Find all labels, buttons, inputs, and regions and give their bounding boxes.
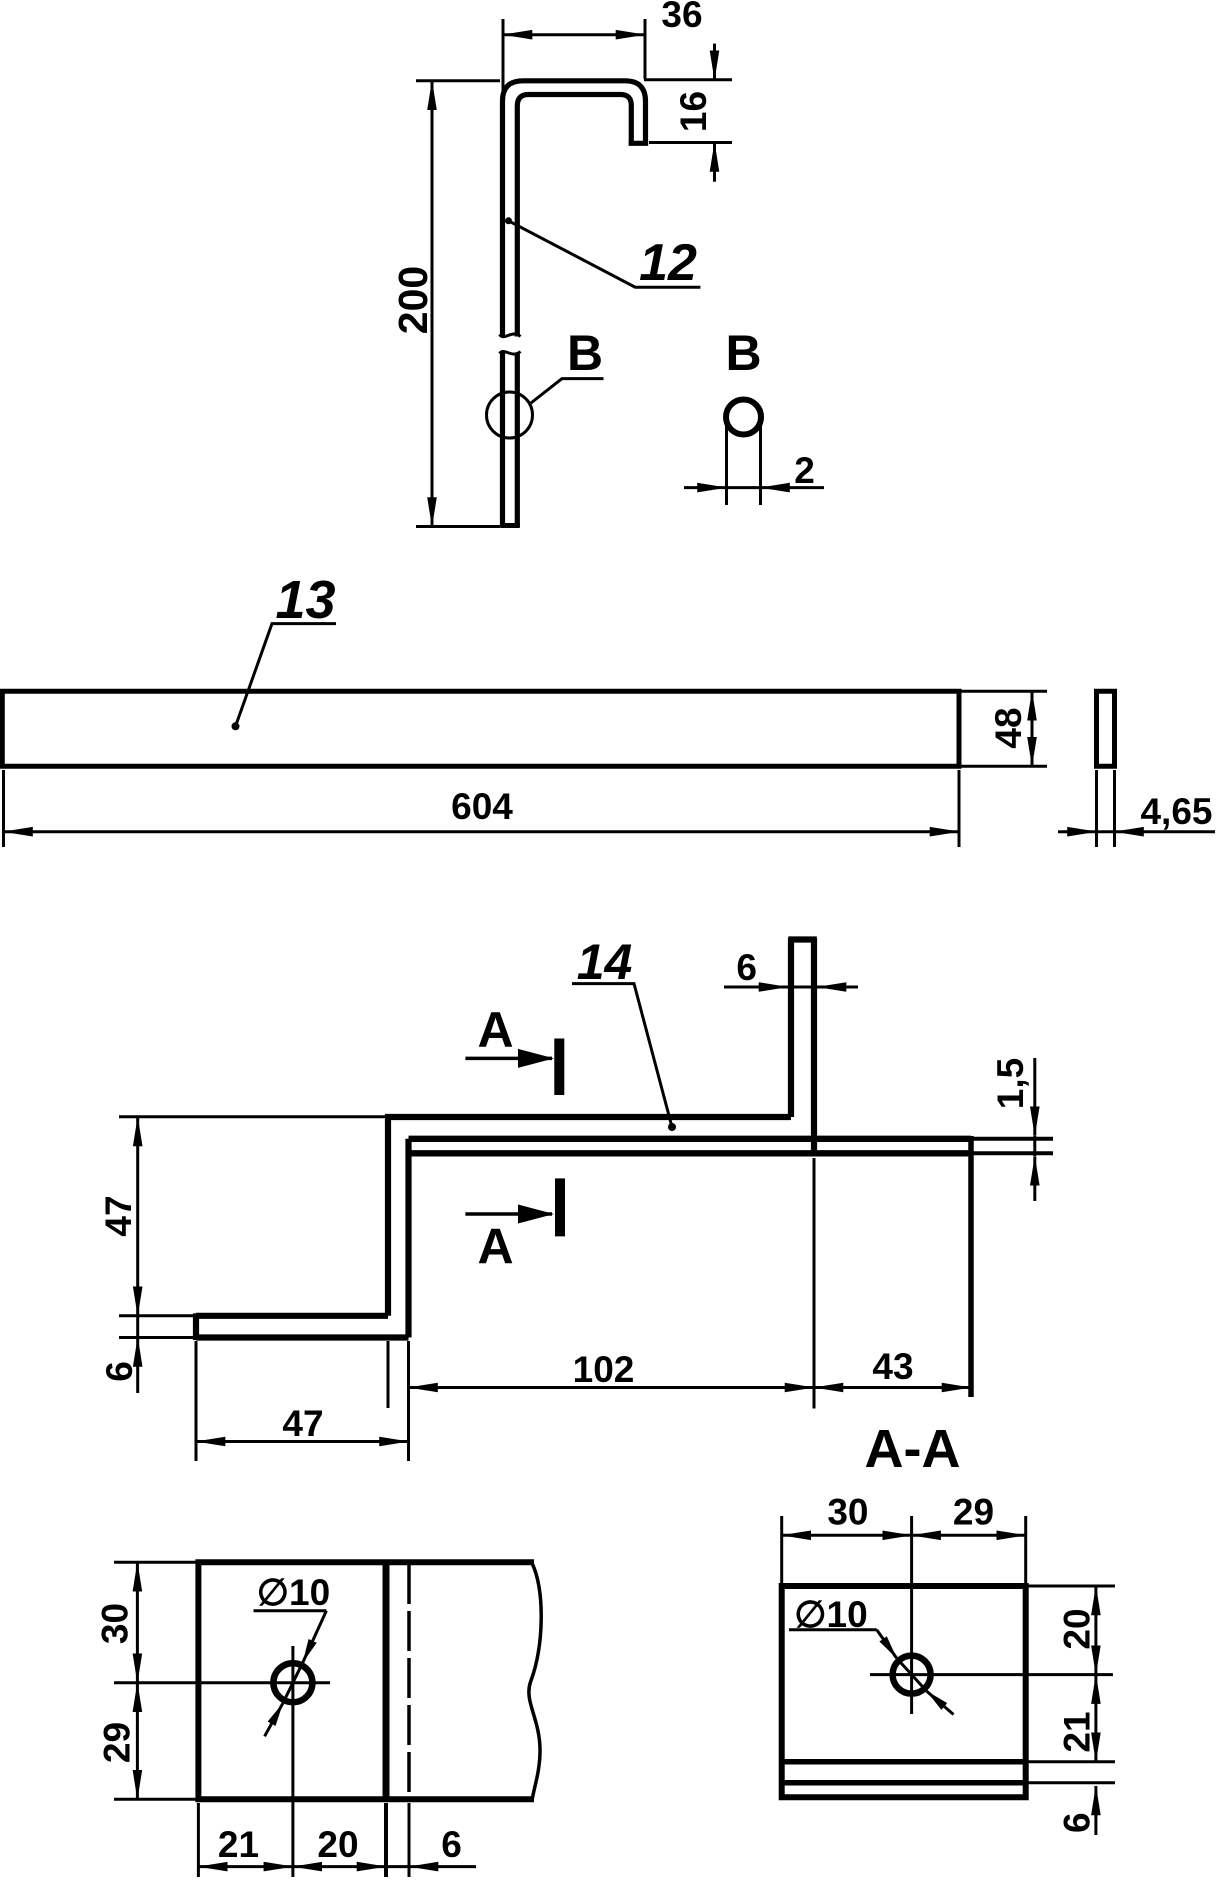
- dimension 2: right arrow (outside, pointing left): [761, 486, 825, 489]
- d10 opposite arrow from lower-left: [265, 1703, 283, 1736]
- dimension 604: right extension line: [958, 770, 961, 847]
- extension line below outer vertical x=388: [387, 1341, 390, 1408]
- detail B: strip cross-section circle: [726, 400, 761, 435]
- extension below bend line: [384, 1803, 388, 1877]
- part 12 lower leg inner line (below break): [515, 353, 520, 528]
- dimension 6 left: lower arrow (outside, pointing up): [136, 1338, 139, 1394]
- dimension 16: upper arrow (outside, pointing down): [713, 44, 716, 80]
- dimension 47 left: dimension line with arrows: [136, 1117, 139, 1316]
- part 14: sheet lower line thin extension to right: [971, 1151, 1053, 1155]
- bottom-left view: bend edge line: [383, 1562, 390, 1799]
- bottom-left view: hole circle (d10): [273, 1663, 312, 1702]
- svg-text:30: 30: [95, 1603, 136, 1644]
- d10 leader arrow to hole: [303, 1611, 327, 1663]
- dimension 48: dimension line with arrows: [1031, 691, 1034, 766]
- bottom-left view: horizontal centerline: [114, 1681, 330, 1684]
- svg-text:200: 200: [390, 266, 436, 334]
- dimension 36: left extension line: [502, 19, 505, 105]
- dimension 6 top (tab width): right arrow: [817, 986, 858, 989]
- svg-text:B: B: [725, 325, 761, 381]
- dimension 47 left: top extension line: [119, 1115, 385, 1118]
- dimension 16: top extension line: [644, 78, 732, 81]
- part 14: tab right line: [811, 938, 817, 1155]
- part 14: left vertical outer + top surface: [388, 1117, 791, 1316]
- svg-text:20: 20: [317, 1824, 358, 1865]
- part 12 lower leg outer line (below break): [500, 353, 505, 528]
- svg-text:B: B: [567, 325, 603, 381]
- part 13 outline rectangle (flat bar 604x48): [2, 691, 959, 766]
- svg-text:4,65: 4,65: [1140, 791, 1212, 832]
- svg-text:1,5: 1,5: [990, 1058, 1031, 1109]
- svg-text:21: 21: [218, 1824, 259, 1865]
- break mark lower: [500, 351, 521, 354]
- part 14: right end cap and 43-dim extension line: [968, 1136, 974, 1397]
- part 14: sheet upper line thin extension to right: [971, 1137, 1053, 1141]
- bottom-left view: hidden (dashed) bend line: [407, 1564, 411, 1799]
- section A-A lower arrow: [465, 1212, 552, 1216]
- part 14: upturned tab left line: [788, 938, 794, 1117]
- part 12 hook bottom end cap: [629, 141, 649, 146]
- leader line for label 12: [509, 221, 701, 287]
- break mark upper: [500, 334, 521, 337]
- dimension 29: bottom extension line: [114, 1798, 196, 1801]
- leader dot for label 14: [668, 1123, 676, 1131]
- A-A d10 label underline: [789, 1628, 877, 1631]
- svg-text:20: 20: [1057, 1608, 1098, 1649]
- svg-text:12: 12: [639, 234, 697, 292]
- dimension 1,5: upper arrow (outside, pointing down): [1033, 1058, 1036, 1136]
- svg-text:6: 6: [1057, 1812, 1098, 1833]
- svg-text:A: A: [477, 1219, 513, 1275]
- svg-text:2: 2: [794, 450, 815, 491]
- extension line below inner vertical x=408.5: [407, 1341, 410, 1461]
- section A-A upper cutting plane bar: [554, 1039, 564, 1096]
- dimension 6: line through bend and dashed lines: [386, 1865, 409, 1868]
- A-A dimension 30/29: right extension line: [1024, 1516, 1027, 1583]
- A-A view: foot bottom line: [784, 1759, 1026, 1765]
- extension below left edge: [197, 1803, 200, 1877]
- A-A dimension 29: dimension line with arrows: [912, 1534, 1026, 1537]
- svg-text:29: 29: [97, 1722, 138, 1763]
- svg-text:∅10: ∅10: [257, 1572, 330, 1613]
- part 14: foot top surface: [196, 1313, 388, 1319]
- dimension 16: lower arrow (outside, pointing up): [713, 143, 716, 182]
- part 14: foot left end cap: [193, 1313, 199, 1340]
- dimension 102: dimension line with arrows: [409, 1386, 815, 1389]
- dimension 4,65: right arrow (outside, pointing left): [1115, 830, 1216, 833]
- dimension 47/6 left: foot top extension line: [119, 1314, 193, 1317]
- A-A view: vertical centerline: [910, 1516, 913, 1714]
- svg-text:6: 6: [99, 1361, 140, 1382]
- dimension 20: dimension line with arrows: [293, 1865, 386, 1868]
- dimension 16: bottom extension line: [649, 141, 732, 144]
- svg-text:604: 604: [451, 786, 513, 827]
- leader dot for label 13: [232, 722, 240, 730]
- svg-text:47: 47: [282, 1403, 323, 1444]
- section A-A upper arrow: [465, 1057, 552, 1061]
- svg-text:29: 29: [953, 1492, 994, 1533]
- dimension 2: line through tangent lines: [727, 486, 760, 489]
- bottom-left view: wavy break line: [529, 1563, 541, 1798]
- svg-text:14: 14: [577, 934, 633, 990]
- leader line to label B: [529, 379, 604, 405]
- extension line below tab right x=814: [813, 1158, 816, 1409]
- A-A d10 diameter line through hole: [897, 1658, 927, 1691]
- detail B: left tangent projection line: [725, 417, 728, 505]
- d10 label underline: [254, 1609, 327, 1612]
- dimension 6 top (tab width): left arrow: [724, 986, 788, 989]
- A-A view: sheet top line: [784, 1780, 1026, 1786]
- extension line below foot left end: [195, 1341, 198, 1461]
- A-A right: foot line extension: [1028, 1760, 1115, 1763]
- svg-text:A-A: A-A: [865, 1419, 961, 1479]
- dimension 4,65: left extension line: [1095, 770, 1098, 847]
- svg-text:102: 102: [573, 1349, 635, 1390]
- dimension 200: top extension line: [416, 79, 500, 82]
- svg-text:43: 43: [872, 1346, 913, 1387]
- d10 diameter line through hole: [283, 1662, 303, 1703]
- dimension 47/6 left: dim line through foot: [136, 1316, 139, 1338]
- detail circle B on leg: [487, 392, 533, 438]
- svg-text:6: 6: [441, 1824, 462, 1865]
- svg-text:A: A: [477, 1002, 513, 1058]
- dimension 4,65: line between extension lines: [1097, 830, 1114, 833]
- svg-text:47: 47: [98, 1195, 139, 1236]
- A-A view: hole circle (d10): [893, 1656, 931, 1694]
- A-A view: plate outline rectangle: [782, 1586, 1026, 1797]
- A-A d10 opposite arrow from lower-right: [927, 1691, 954, 1714]
- dimension 200: bottom extension line: [416, 525, 500, 528]
- section A-A lower cutting plane bar: [555, 1178, 565, 1236]
- dimension 6: arrow pointing left at dashed line: [409, 1865, 476, 1868]
- part 12 leg bottom end cap: [500, 523, 520, 528]
- part 14: foot bottom surface: [196, 1334, 409, 1340]
- dimension 1,5: line through sheet lines: [1033, 1136, 1036, 1156]
- detail B: right tangent projection line: [759, 417, 762, 505]
- dimension 36: right extension line: [644, 19, 647, 79]
- dimension 4,65: left arrow (outside, pointing right): [1058, 830, 1097, 833]
- svg-text:48: 48: [988, 707, 1029, 748]
- leader line for label 14: [572, 984, 672, 1127]
- svg-text:21: 21: [1057, 1711, 1098, 1752]
- part 13 side view (thickness) rectangle: [1097, 691, 1115, 766]
- dimension 48: top extension line: [961, 690, 1047, 693]
- A-A dimension 6: arrow pointing up at sheet line: [1094, 1786, 1097, 1835]
- part 12 outline: hooked strip, outer surface: [503, 81, 646, 337]
- A-A right: top edge extension line: [1028, 1585, 1115, 1588]
- A-A dimension 30: dimension line with arrows: [782, 1534, 912, 1537]
- dimension 604: left extension line: [2, 770, 5, 847]
- A-A dimension 30/29: left extension line: [780, 1516, 783, 1583]
- part 14: tab top end cap: [788, 936, 817, 942]
- leader dot for label 12: [505, 217, 512, 224]
- leader line for label 13: [236, 624, 337, 727]
- dimension 29: dimension line with arrows: [136, 1683, 139, 1800]
- bottom-left view: plate outline (top, left, bottom edges): [198, 1562, 534, 1799]
- A-A view: horizontal centerline: [870, 1673, 1113, 1676]
- dimension 2: left arrow (outside, pointing right): [684, 486, 727, 489]
- bottom-left view: vertical centerline: [291, 1646, 294, 1877]
- part 14: sheet lower line (thick): [409, 1150, 972, 1156]
- part 14: sheet upper line (thick): [409, 1136, 972, 1142]
- dimension 21: dimension line with arrows: [198, 1865, 293, 1868]
- dimension 47/6 left: foot bottom extension line: [119, 1336, 193, 1339]
- dimension 6 top: line through tab: [789, 986, 816, 989]
- svg-text:13: 13: [275, 570, 335, 630]
- dimension 30: dimension line with arrows: [136, 1562, 139, 1682]
- dimension 4,65: right extension line: [1113, 770, 1116, 847]
- part 12 outline: inner surface: [517, 95, 631, 337]
- dimension 200: dimension line with arrows: [431, 81, 434, 527]
- dimension 48: bottom extension line: [961, 765, 1047, 768]
- dimension 30 left: top extension line: [114, 1561, 196, 1564]
- svg-text:6: 6: [736, 947, 757, 988]
- extension below dashed line: [408, 1803, 411, 1877]
- A-A right: sheet line extension: [1028, 1781, 1115, 1784]
- dimension 47 bottom: dimension line with arrows: [196, 1440, 409, 1443]
- svg-text:16: 16: [673, 91, 714, 132]
- dimension 1,5: lower arrow (outside, pointing up): [1033, 1156, 1036, 1201]
- svg-text:36: 36: [661, 0, 702, 35]
- part 14: left vertical inner line: [405, 1139, 411, 1338]
- A-A d10 leader arrow to hole: [877, 1630, 897, 1658]
- dimension 604: dimension line with arrows: [4, 830, 960, 833]
- A-A dimension 21: dimension line with arrows: [1094, 1675, 1097, 1762]
- dimension 36: dimension line with arrows: [503, 33, 645, 36]
- A-A dimension 20: dimension line with arrows: [1094, 1586, 1097, 1675]
- dimension 43: dimension line with arrows: [814, 1386, 971, 1389]
- svg-text:30: 30: [827, 1492, 868, 1533]
